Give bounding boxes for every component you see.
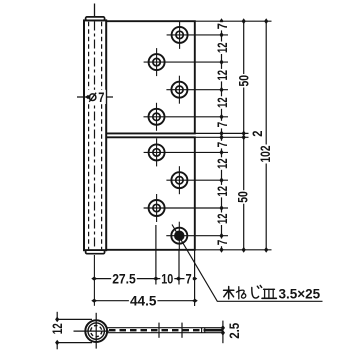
bottom leaf outline [106,137,195,250]
side view leaf mid hidden line [109,329,206,331]
hole row 6 extension line [166,179,228,181]
side 12-dim top dot [55,317,59,323]
screw hole 5 [149,138,165,166]
kanji sara (dish) [262,289,276,298]
dim text 44.5 [129,293,158,309]
chain dot top (34.9) [219,32,223,38]
screw hole 6 [171,166,187,194]
side view hole centerline tick 1 [158,323,160,338]
svg-text:7: 7 [214,142,230,148]
dim text 12 (top chain 3) [214,69,230,82]
side view knuckle middle circle [88,323,104,339]
hole row 7 extension line [144,207,228,209]
extension line plate right edge [194,250,196,306]
dim text 102 [257,145,273,164]
dim text 12 (top chain 4) [214,96,230,109]
dim text 12 (bottom chain 3) [214,185,230,198]
svg-text:7: 7 [186,271,192,287]
side view pin hidden circle [91,326,102,337]
svg-text:12: 12 [214,186,230,197]
hidden pin line left [88,22,90,249]
screw hole 4 [149,103,165,131]
svg-text:50: 50 [236,75,252,87]
hole row 8 extension line [166,235,228,237]
pin axis centerline (above knuckle) [94,4,96,18]
extension line right hole column [178,250,180,285]
svg-text:12: 12 [214,97,230,108]
dim-50 dot (133.4) [242,131,246,137]
dim text 7 (top chain 1) [214,22,230,30]
screw hole 3 [171,76,187,104]
dim-50 dot (21.2) [242,18,246,24]
side view leaf solid end segment [206,329,223,332]
chain dot bottom (235.7) [219,233,223,239]
hole row 2 extension line [144,61,228,63]
svg-text:12: 12 [214,158,230,169]
dim-102 dot (249.8) [264,247,268,253]
dim text 2.5 side [226,322,242,340]
dim text phi7 [87,89,106,105]
dim line 102 [265,21,267,250]
dim text 7 horizontal [185,271,193,287]
bottom chain dot (178.5) [176,277,182,281]
dim text 12 (top chain 2) [214,41,230,54]
side view hole centerline tick 2 [181,323,183,338]
chain dot top (89.7) [219,87,223,93]
screw hole 7 [149,194,165,222]
chain dot bottom (137.3) [219,134,223,140]
bottom chain dot (94.2) [91,277,97,281]
dim text 12 (bottom chain 2) [214,157,230,170]
bottom chain dot (194.4) [192,277,198,281]
svg-text:12: 12 [49,323,65,334]
dim-50 dot (249.8) [242,247,246,253]
hole row 1 extension line [167,34,228,36]
screw hole 1 [172,21,188,49]
svg-text:12: 12 [214,213,230,224]
chain dot bottom (208.0) [219,205,223,211]
hole row 4 extension line [144,116,229,118]
chain dot bottom (152.4) [219,150,223,156]
label text: wood screw flat head (ki-ne-ji-sara) [224,285,277,298]
chain dot top (62.1) [219,59,223,65]
dim text 12 (bottom chain 4) [214,213,230,226]
side 2.5-dim top dot [221,325,225,331]
svg-text:44.5: 44.5 [130,293,157,309]
svg-text:7: 7 [214,122,230,128]
hiragana ji [252,285,262,298]
dim text 12 side [49,322,65,335]
kanji ki (wood) [224,287,234,299]
chain dot top (133.4) [219,131,223,137]
hiragana ne [236,287,245,299]
svg-text:27.5: 27.5 [112,271,136,287]
chain dot bottom (180.2) [219,177,223,183]
dim text 10 [160,271,174,287]
side 12-dim bottom dot [55,340,59,346]
chain dot top (21.2) [219,18,223,24]
dim text 50 top [236,74,252,88]
gap lower extension line [195,136,249,138]
vertical chain dimension line [221,21,223,250]
svg-text:10: 10 [161,271,173,287]
dim-44.5 dot (194.9) [192,299,198,303]
pin axis centerline (inside barrel) [94,22,96,250]
dim text 7 (bottom chain 1) [214,141,230,149]
side view hole edge ticks [201,328,203,333]
side view 12-dim bottom extension [56,342,92,344]
leader line to screw hole 8 [172,225,323,302]
side view 2.5-dim line [222,321,224,344]
dim line phi7 [77,96,113,98]
dim-50 dot (137.3) [242,134,246,140]
top edge extension line [195,20,272,22]
side 2.5-dim bottom dot [221,330,225,336]
svg-text:7: 7 [214,23,230,29]
svg-text:7: 7 [214,239,230,245]
dim text 2 [249,130,265,138]
dim line 44.5 [94,300,195,302]
dim line 27.5-10-7 [94,278,194,280]
phi7 left dot [85,95,91,99]
side view horizontal centerline [74,330,110,332]
knuckle bottom cap [86,250,105,254]
dim line 50 bottom [243,137,245,250]
chain dot bottom (249.8) [219,247,223,253]
side view knuckle outer circle [85,320,107,342]
svg-text:12: 12 [214,70,230,81]
svg-text:3.5×25: 3.5×25 [279,287,321,302]
dim text 7 (top chain 5) [214,121,230,129]
svg-text:102: 102 [257,145,273,162]
bottom chain dot (155.9) [153,277,159,281]
hole row 3 extension line [166,89,228,91]
dim line 50 top [243,21,245,133]
screw hole 8 [171,222,187,250]
svg-text:2: 2 [249,130,265,136]
extension line left hole column [155,225,157,285]
pin center extension line [93,255,95,306]
dim text 27.5 [111,271,137,287]
knuckle top cap [86,17,105,21]
side view 12-dim line stubs [56,312,58,320]
hidden pin line right [101,22,103,249]
dim text 7 (bottom chain 5) [214,239,230,247]
gap upper extension line [195,132,249,134]
top leaf outline [106,21,195,133]
dim text 50 bottom [235,190,251,204]
side view 12-dim top extension [56,318,92,320]
svg-text:2.5: 2.5 [226,323,242,339]
knuckle barrel [84,20,106,250]
svg-text:50: 50 [235,191,251,203]
bottom edge extension line [195,249,272,251]
hole row 5 extension line [144,151,228,153]
chain dot top (116.8) [219,114,223,120]
svg-text:7: 7 [98,89,104,105]
side view leaf outline [107,328,223,333]
svg-text:12: 12 [214,42,230,53]
side view vertical centerline [95,313,97,349]
dim-44.5 dot (94.2) [91,299,97,303]
dim-102 dot (21.2) [264,18,268,24]
screw hole 2 [149,48,165,76]
